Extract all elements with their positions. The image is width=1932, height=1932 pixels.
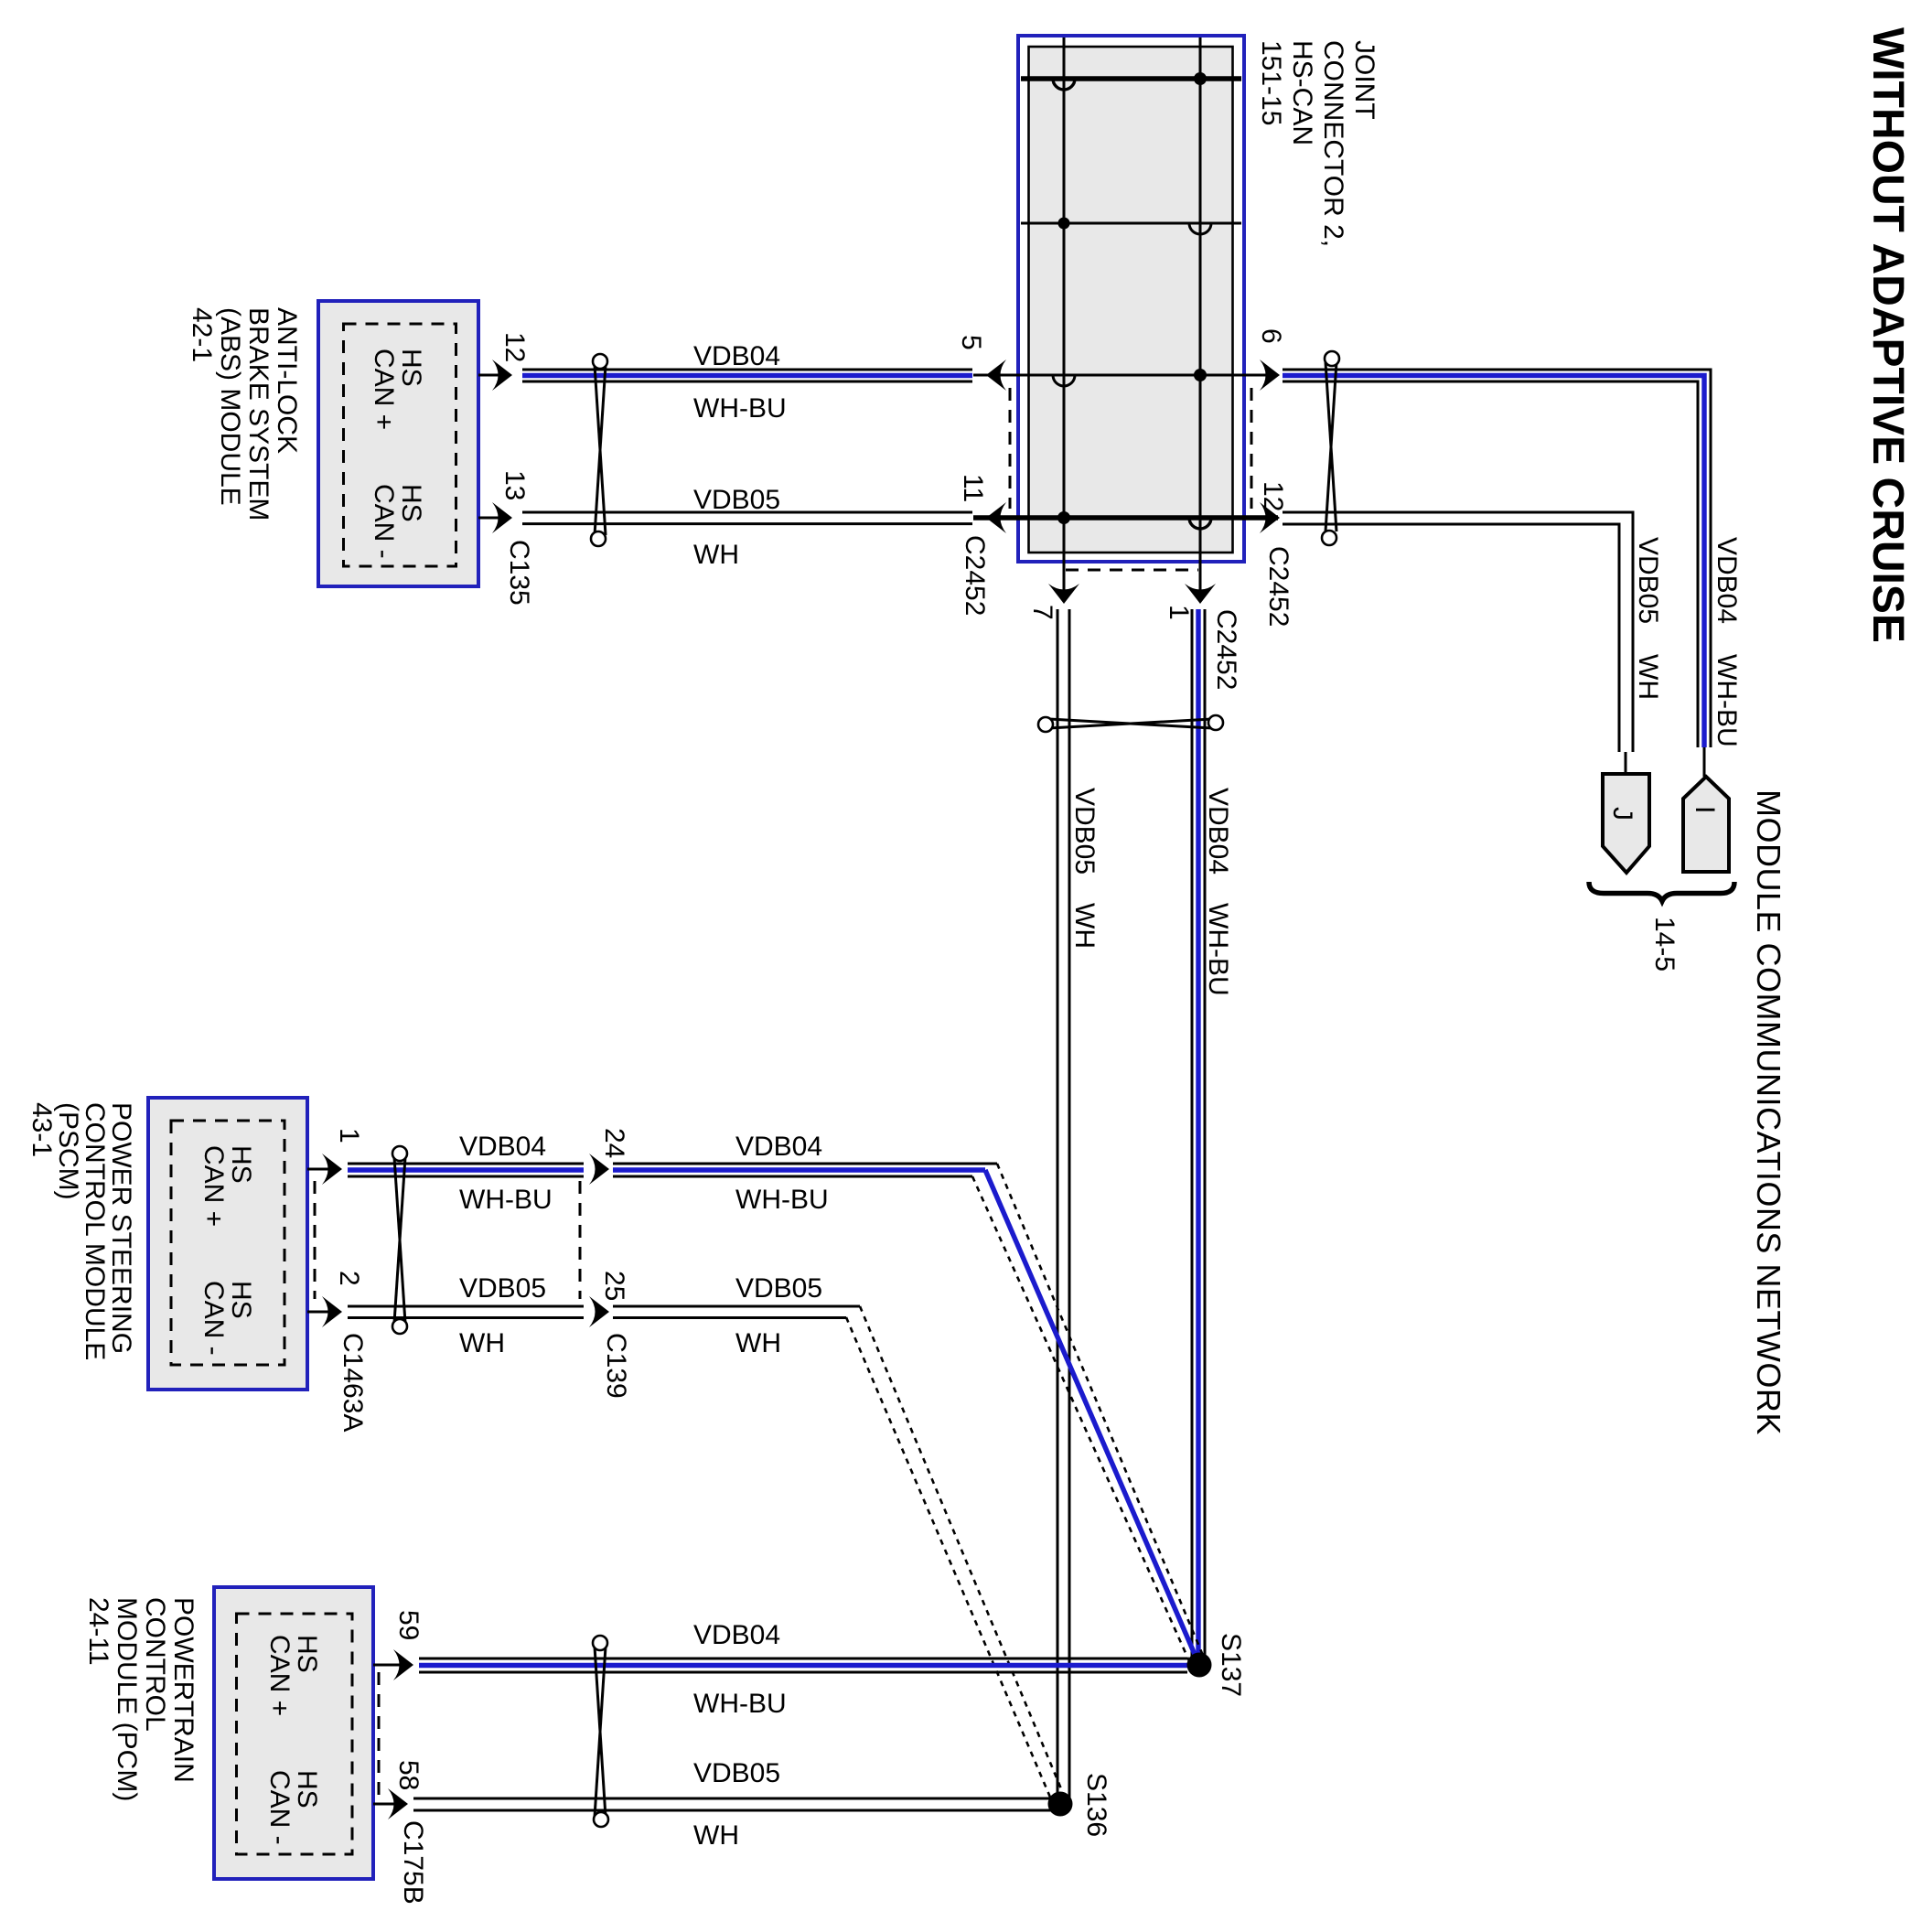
svg-text:WH-BU: WH-BU [1203, 903, 1233, 996]
junction dot row2-bus1 [1058, 218, 1070, 230]
wire VDB04 C139 to corner : black pair [613, 1164, 997, 1176]
twisted pair symbol T2 [1322, 351, 1339, 545]
ABS pin 12 arrow [492, 360, 512, 391]
junction dot row1-bus2 [1194, 72, 1207, 85]
diagonal VDB04 dashed black flank lower [972, 1176, 1194, 1671]
svg-text:WH-BU: WH-BU [1712, 654, 1742, 747]
svg-text:11: 11 [958, 474, 988, 502]
svg-text:VDB04: VDB04 [459, 1132, 546, 1162]
pin 5 arrow [986, 360, 1006, 391]
twisted pair symbol T1 [591, 354, 607, 546]
splice S137 [1187, 1653, 1212, 1678]
svg-text:WH: WH [459, 1328, 505, 1358]
wire VDB04 PCM blue stripe [419, 1663, 1194, 1668]
wire VDB05 ABS to C2452 pin11 : white pair [522, 512, 972, 524]
ABS pin 12 stub [478, 374, 505, 377]
twisted pair symbol T5 [593, 1636, 608, 1827]
wire pin6 single into flag I [1703, 747, 1706, 777]
svg-text:C139: C139 [601, 1333, 631, 1399]
wire pin12 to flag J : white pair [1283, 512, 1633, 752]
svg-text:J: J [1607, 807, 1637, 821]
svg-text:VDB04: VDB04 [1712, 537, 1742, 624]
wire VDB04 C139 blue stripe [613, 1167, 985, 1172]
svg-text:13: 13 [499, 470, 530, 500]
svg-text:C135: C135 [504, 540, 534, 606]
row 1 thick with hop at bus1 [1021, 76, 1241, 81]
row 2 thin with hop at bus2 [1021, 222, 1241, 225]
svg-text:VDB05: VDB05 [693, 1758, 780, 1788]
wire C2452 pin7 to S136 : white pair [1057, 609, 1069, 1798]
svg-text:1: 1 [334, 1128, 364, 1143]
wire VDB04 PCM to S137 : black pair [419, 1658, 1187, 1672]
joint connector J2 box [1018, 36, 1244, 562]
pin 7 arrow (down) [1048, 584, 1079, 604]
diagonal VDB05 dashed to S136 upper [860, 1306, 1065, 1798]
diagonal VDB05 dashed to S136 lower [846, 1317, 1054, 1806]
svg-text:WH-BU: WH-BU [459, 1185, 553, 1215]
svg-text:1: 1 [1164, 605, 1194, 620]
pin 11 arrow [986, 502, 1006, 533]
C139 pin 24 arrow [589, 1154, 609, 1185]
PCM pin 58 arrow [388, 1788, 408, 1819]
connector C139 dashed outline [579, 1181, 582, 1299]
connector C2452 dashed outline bottom [1066, 569, 1198, 572]
svg-text:12: 12 [499, 332, 530, 362]
svg-text:WH: WH [1633, 654, 1663, 700]
svg-text:C175B: C175B [398, 1820, 428, 1905]
row 4 thick wire (pin11 to pin12) with hop at bus2 [973, 515, 1278, 521]
svg-text:VDB05: VDB05 [693, 485, 780, 515]
svg-text:S137: S137 [1216, 1633, 1246, 1697]
wire pin12 single into flag J [1625, 752, 1627, 774]
svg-text:6: 6 [1256, 328, 1286, 344]
wire VDB04 PSCM blue stripe [348, 1167, 584, 1172]
wire VDB04 ABS to C2452 pin5 : black pair [522, 370, 972, 381]
wire C2452 pin1 blue stripe [1196, 609, 1200, 1659]
svg-text:VDB05: VDB05 [1633, 537, 1663, 624]
ABS module box [318, 301, 478, 586]
PCM pin 59 stub [373, 1664, 406, 1667]
wire VDB04 ABS blue stripe [522, 373, 972, 378]
diagonal VDB04 dashed black flank upper [997, 1164, 1204, 1658]
bus bar 1 [1063, 38, 1066, 596]
wire VDB05 PCM to S136 : white pair [413, 1798, 1054, 1810]
C139 pin 25 arrow [589, 1296, 609, 1327]
wire C2452 pin1 to S137 : black pair [1192, 609, 1205, 1659]
diagonal VDB04 blue to S137 [985, 1170, 1199, 1665]
svg-text:5: 5 [956, 335, 986, 350]
brace 14-5 [1589, 882, 1734, 901]
svg-text:C1463A: C1463A [338, 1333, 368, 1432]
svg-text:C2452: C2452 [1211, 609, 1241, 690]
svg-text:I: I [1690, 806, 1720, 813]
svg-text:7: 7 [1027, 605, 1057, 620]
PSCM module box [148, 1098, 307, 1390]
PSCM pin 2 arrow [322, 1296, 342, 1327]
svg-text:WH-BU: WH-BU [735, 1185, 829, 1215]
svg-text:VDB04: VDB04 [693, 341, 780, 371]
svg-text:58: 58 [393, 1760, 424, 1790]
ABS pin 13 stub [478, 517, 505, 520]
twisted pair symbol T3 horizontal [1038, 715, 1223, 732]
svg-text:WH-BU: WH-BU [693, 1689, 787, 1719]
svg-text:VDB04: VDB04 [1203, 788, 1233, 875]
connector C1463A dashed outline [314, 1181, 317, 1299]
wire pin6 blue stripe [1283, 376, 1704, 748]
svg-text:2: 2 [334, 1271, 364, 1286]
svg-text:24: 24 [599, 1128, 629, 1158]
PCM pin 58 stub [373, 1803, 401, 1806]
bus bar 2 [1199, 38, 1202, 596]
wire VDB04 PSCM to C139 : black pair [348, 1164, 584, 1176]
twisted pair symbol T4 [392, 1146, 407, 1334]
svg-text:S136: S136 [1081, 1773, 1111, 1837]
svg-text:25: 25 [599, 1271, 629, 1301]
flag I [1683, 777, 1729, 872]
svg-text:VDB05: VDB05 [735, 1273, 822, 1304]
svg-text:59: 59 [393, 1610, 424, 1640]
row 3 wire (pin5 to pin6) with hop at bus1 [973, 374, 1278, 377]
svg-text:12: 12 [1258, 481, 1288, 511]
junction dot row4-bus1 [1057, 511, 1070, 524]
flag J [1603, 774, 1649, 873]
splice S136 [1048, 1792, 1073, 1817]
svg-text:WH: WH [735, 1328, 781, 1358]
wire pin6 to flag I : black pair [1283, 370, 1711, 747]
PCM pin 59 arrow [393, 1649, 413, 1680]
connector C2452 dashed outline right [1250, 388, 1253, 509]
junction dot row3-bus2 [1194, 369, 1207, 381]
svg-text:WH: WH [693, 1820, 739, 1851]
svg-text:VDB04: VDB04 [693, 1620, 780, 1650]
wire VDB05 C139 to corner : white pair [613, 1306, 860, 1318]
svg-text:MODULE COMMUNICATIONS NETWORK: MODULE COMMUNICATIONS NETWORK [1750, 789, 1787, 1435]
connector C2452 dashed outline left [1009, 388, 1012, 509]
svg-text:C2452: C2452 [960, 535, 990, 616]
PCM module box [214, 1587, 373, 1879]
PSCM pin 2 stub [307, 1311, 335, 1314]
svg-text:VDB05: VDB05 [459, 1273, 546, 1304]
svg-text:WH-BU: WH-BU [693, 393, 787, 424]
wire VDB05 PSCM to C139 : white pair [348, 1306, 584, 1318]
svg-text:VDB05: VDB05 [1069, 788, 1100, 875]
svg-text:VDB04: VDB04 [735, 1132, 822, 1162]
svg-text:WH: WH [693, 540, 739, 570]
svg-text:WH: WH [1069, 903, 1100, 949]
svg-text:14-5: 14-5 [1649, 917, 1680, 971]
pin 6 arrow [1260, 360, 1280, 391]
svg-text:WITHOUT ADAPTIVE CRUISE: WITHOUT ADAPTIVE CRUISE [1863, 27, 1912, 643]
connector C175B dashed outline [378, 1672, 381, 1797]
svg-text:C2452: C2452 [1263, 546, 1293, 627]
pin 1 arrow (down) [1185, 584, 1216, 604]
PSCM pin 1 stub [307, 1168, 335, 1171]
ABS pin 13 arrow [492, 502, 512, 533]
PSCM pin 1 arrow [322, 1154, 342, 1185]
pin 12 arrow (right) [1260, 502, 1280, 533]
